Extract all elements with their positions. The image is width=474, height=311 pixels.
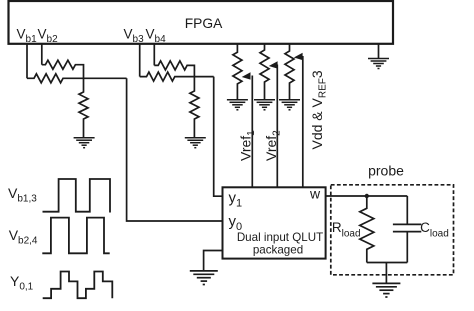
waveform label Vb2,4 [9,227,38,247]
wire Vb2 drop [41,44,43,65]
probe box (dashed) [331,185,454,275]
resistor R6 (to ground) [190,77,199,138]
FPGA box U1 [9,1,394,44]
svg-text:FPGA: FPGA [185,16,223,31]
resistor R1 (Vb1 arm) [27,74,84,83]
pin label y0 [229,213,243,233]
svg-text:probe: probe [368,163,404,179]
resistor Rload [360,196,374,263]
pin label Vb4 [146,27,167,46]
wire wiper P3 to QLUT [302,56,304,187]
wire wiper P2 to QLUT [276,65,278,188]
pin label w [309,186,321,202]
label Cload [420,220,449,240]
waveform label Y0,1 [10,273,34,293]
potentiometer P1 body [233,44,242,100]
ground GND_P1 [227,100,248,110]
svg-text:Vb2,4: Vb2,4 [9,227,38,247]
net label Vref1 [238,130,258,161]
net label Vdd and VREF3 [309,70,329,149]
potentiometer P2 wiper arrow [269,61,278,68]
resistor R2 (Vb2 arm) [42,60,84,78]
FPGA label [185,16,223,31]
waveform label Vb1,3 [8,185,37,205]
wire y1 net [214,77,223,197]
potentiometer P2 body [260,44,269,100]
junction node w [365,194,369,198]
svg-text:packaged: packaged [253,244,303,257]
wire Vb1 drop [26,44,28,79]
pin label y1 [229,190,243,210]
wire w net [326,195,408,197]
wire probe ground stem [385,263,387,284]
waveform Vb2,4 trace [42,218,109,254]
net label Vref2 [263,130,283,161]
svg-text:w: w [309,186,321,202]
ground GND1 [74,138,95,148]
QLUT caption line 1 [237,231,323,244]
ground GND_P2 [254,100,275,110]
QLUT box U2 [223,187,326,258]
ground GND4 (probe) [372,283,400,297]
label Rload [332,220,361,240]
wire y0 net [127,78,223,221]
wire QLUT ground lead [204,251,223,271]
wire RC bottom [367,262,408,264]
svg-text:Dual input QLUT: Dual input QLUT [237,231,323,244]
svg-text:Cload: Cload [420,220,449,240]
waveform Y0,1 trace [43,272,113,299]
wire node B to y1 drop corner [194,76,213,78]
svg-text:Vref2: Vref2 [263,130,283,161]
resistor R5 (Vb4 arm) [154,61,194,77]
capacitor Cload [393,196,421,263]
wire Vb4 drop [153,44,155,66]
svg-text:Rload: Rload [332,220,361,240]
resistor R3 (to ground) [79,78,88,137]
wire wiper P1 to QLUT [251,76,253,188]
wire node A to y0 drop corner [84,77,127,79]
potentiometer P1 wiper arrow [242,72,251,79]
ground GND_P3 [279,100,300,110]
svg-text:Y0,1: Y0,1 [10,273,34,293]
potentiometer P3 wiper arrow [294,53,303,60]
wire Vb3 drop [139,44,141,77]
svg-text:Vdd & VREF3: Vdd & VREF3 [309,70,329,149]
QLUT caption line 2 [253,244,303,257]
pin label Vb2 [38,27,59,46]
svg-text:Vref1: Vref1 [238,130,258,161]
pin label Vb1 [17,27,38,46]
ground GND5 (FPGA right) [368,44,389,69]
probe label [368,163,404,179]
potentiometer P3 body [285,44,294,100]
svg-text:Vb1,3: Vb1,3 [8,185,37,205]
waveform Vb1,3 trace [43,179,111,213]
pin label Vb3 [124,27,145,46]
ground GND3 (QLUT) [190,271,218,285]
resistor R4 (Vb3 arm) [140,72,195,81]
ground GND2 [185,138,206,148]
